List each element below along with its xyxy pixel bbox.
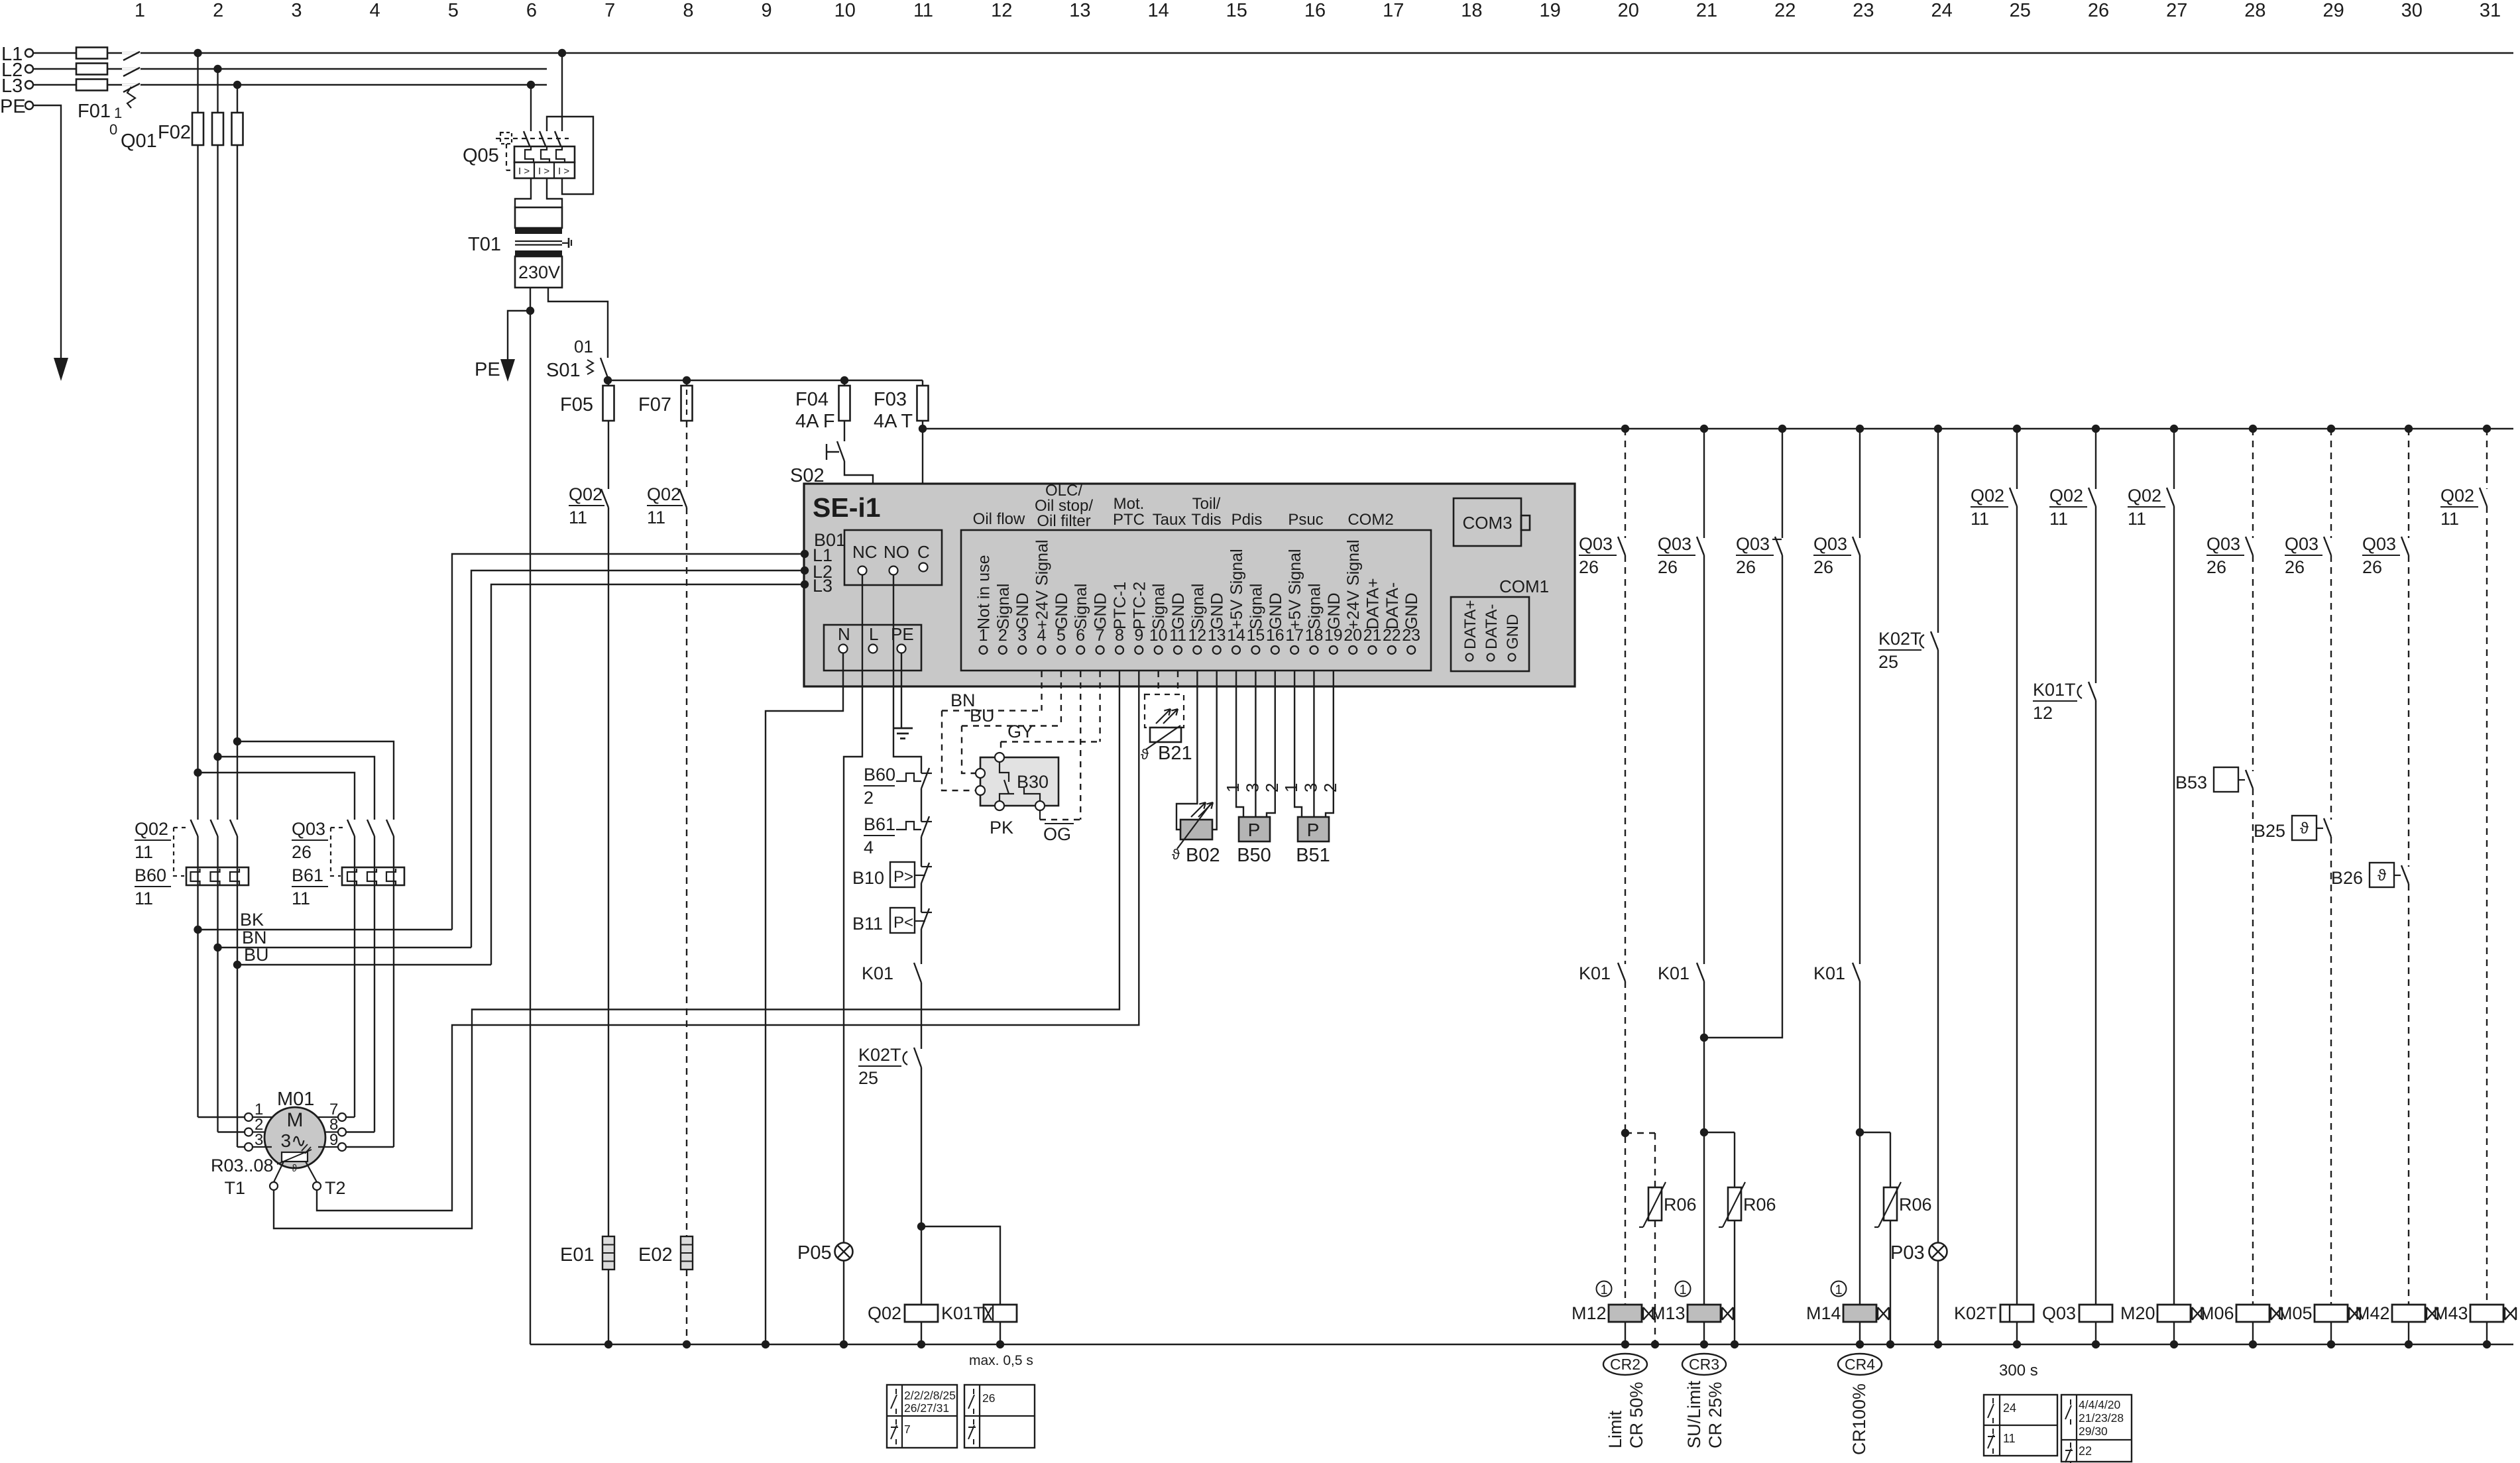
wire P05 to bottom rail bbox=[843, 1260, 844, 1344]
terminal 2 Signal bbox=[994, 584, 1013, 655]
resistor R06 (2) bbox=[1728, 1187, 1741, 1220]
terminal L2 bbox=[1, 60, 33, 81]
node branch-24 on control bus bbox=[1934, 425, 1942, 433]
header Mot. PTC bbox=[1113, 495, 1145, 529]
wire B50 lead 3 (terminal 15) bbox=[1255, 671, 1256, 817]
svg-text:12: 12 bbox=[2033, 703, 2053, 723]
svg-text:GND: GND bbox=[1403, 592, 1421, 629]
svg-text:P03: P03 bbox=[1890, 1242, 1925, 1264]
svg-text:B61: B61 bbox=[292, 865, 323, 885]
node branch-31 on control bus bbox=[2483, 425, 2491, 433]
wire M05 to bottom rail bbox=[2330, 1322, 2332, 1344]
svg-text:P<: P< bbox=[893, 914, 913, 932]
svg-text:F04: F04 bbox=[795, 389, 829, 410]
svg-text:27: 27 bbox=[2166, 0, 2187, 21]
terminal 22 DATA- bbox=[1383, 582, 1402, 654]
wire chain B10-B11 bbox=[921, 883, 922, 912]
svg-text:ϑ: ϑ bbox=[1172, 846, 1180, 863]
wire Q03 tap phase1 bbox=[194, 769, 355, 820]
svg-text:M13: M13 bbox=[1650, 1303, 1686, 1323]
node M14 bottom junction bbox=[1856, 1340, 1864, 1348]
wire Q03 outputs through B61 bbox=[355, 836, 394, 1147]
svg-text:4A F: 4A F bbox=[795, 411, 835, 432]
labels B50 lead numbers bbox=[1223, 783, 1282, 792]
lamp P05 bbox=[797, 1242, 853, 1264]
svg-text:BU: BU bbox=[970, 706, 995, 726]
terminal 1 Not in use bbox=[975, 555, 994, 654]
svg-text:29/30: 29/30 bbox=[2079, 1425, 2108, 1438]
wire F05 branch to E01 bbox=[608, 508, 609, 1236]
terminal 23 GND bbox=[1402, 592, 1421, 654]
svg-text:2/2/2/8/25: 2/2/2/8/25 bbox=[904, 1389, 956, 1402]
svg-text:K01: K01 bbox=[1579, 963, 1611, 983]
wire chain B11-K01 bbox=[921, 929, 922, 964]
svg-text:F05: F05 bbox=[560, 394, 593, 415]
node R06-3 bottom junction bbox=[1886, 1340, 1894, 1348]
svg-text:B30: B30 bbox=[1017, 772, 1049, 792]
terminal 15 Signal bbox=[1246, 584, 1265, 655]
wire M12 to bottom rail bbox=[1625, 1322, 1626, 1344]
coil M42 bbox=[2392, 1305, 2425, 1322]
wire PE branch from transformer bbox=[475, 311, 530, 382]
svg-text:11: 11 bbox=[135, 889, 153, 908]
terminal L1 bbox=[1, 44, 33, 65]
svg-text:Q03: Q03 bbox=[1736, 534, 1770, 554]
svg-text:GY: GY bbox=[1007, 722, 1033, 741]
wire control bus (y=647) bbox=[923, 428, 2513, 429]
svg-text:26: 26 bbox=[2285, 557, 2305, 577]
wire branch-22 to merge bbox=[1704, 555, 1782, 1038]
svg-text:Signal: Signal bbox=[1188, 584, 1207, 630]
wire terminal 6 dashed to OG bbox=[1080, 671, 1081, 820]
module SE-i1 B01 body bbox=[804, 484, 1575, 686]
svg-text:11: 11 bbox=[647, 508, 665, 527]
wire motor lead 8 bbox=[346, 1131, 374, 1132]
switch S01 control on-off bbox=[546, 337, 608, 381]
svg-text:1: 1 bbox=[1835, 1283, 1842, 1297]
svg-text:28: 28 bbox=[2244, 0, 2265, 21]
fuse F01 (3-pole) bbox=[76, 48, 111, 123]
wire OG run to B30 bbox=[1040, 810, 1080, 844]
svg-text:PE: PE bbox=[475, 359, 500, 380]
designator CR3 bbox=[1682, 1354, 1726, 1375]
node K01T bottom junction bbox=[996, 1340, 1004, 1348]
pressure switch B11 P< bbox=[852, 908, 932, 934]
wire R06-2 to bottom rail bbox=[1734, 1220, 1735, 1344]
contact Q02 pole 3 bbox=[230, 820, 237, 836]
node BK tap on phase1 bbox=[194, 926, 201, 934]
svg-text:GND: GND bbox=[1092, 592, 1110, 629]
svg-text:ϑ: ϑ bbox=[292, 1163, 298, 1174]
svg-text:max. 0,5 s: max. 0,5 s bbox=[969, 1353, 1033, 1368]
wire B51 lead 1 (terminal 17) bbox=[1294, 671, 1302, 817]
svg-text:Oil flow: Oil flow bbox=[973, 510, 1025, 528]
wire F05 branch down bbox=[608, 421, 609, 489]
node F07 feed junction bbox=[683, 376, 691, 384]
wire branch-31 upper dashed bbox=[2486, 429, 2488, 489]
svg-text:Signal: Signal bbox=[1306, 584, 1324, 630]
wire terminal 7 dashed (GY rail) bbox=[1099, 671, 1100, 742]
svg-text:K02T: K02T bbox=[858, 1045, 901, 1065]
fuse F03 4A T bbox=[874, 380, 929, 432]
wire branch upper dashed (M06) bbox=[2252, 429, 2254, 538]
wire motor lead 3 bbox=[237, 1146, 245, 1148]
svg-text:CR3: CR3 bbox=[1689, 1356, 1719, 1373]
node control bus origin bbox=[919, 425, 927, 433]
svg-text:B02: B02 bbox=[1186, 845, 1220, 866]
svg-text:Q01: Q01 bbox=[121, 131, 157, 152]
svg-text:4: 4 bbox=[370, 0, 380, 21]
wire GY rail to B30 top bbox=[1001, 722, 1100, 753]
label SU/Limit / CR 25% (rotated) bbox=[1684, 1380, 1725, 1448]
svg-text:7: 7 bbox=[904, 1423, 911, 1436]
node L1-Q05 tap bbox=[558, 49, 566, 57]
contact Q02/11 (branch 26) bbox=[2049, 486, 2096, 529]
terminal 4 +24V Signal bbox=[1033, 539, 1052, 654]
node L1 entry bbox=[801, 550, 809, 558]
node M43 bottom junction bbox=[2483, 1340, 2491, 1348]
svg-text:M12: M12 bbox=[1572, 1303, 1607, 1323]
svg-text:11: 11 bbox=[2003, 1432, 2016, 1445]
wire S02 to SE-i1 L terminal bbox=[844, 461, 873, 645]
wire Q05 pole3 loop to pole2 bbox=[547, 117, 593, 194]
svg-text:ϑ: ϑ bbox=[1141, 746, 1149, 763]
svg-text:9: 9 bbox=[762, 0, 772, 21]
contact Q02/11 (branch 25) bbox=[1971, 486, 2017, 529]
wire NO terminal to safety chain bbox=[893, 574, 921, 773]
terminal 13 GND bbox=[1208, 592, 1227, 654]
svg-text:11: 11 bbox=[2049, 509, 2068, 529]
wire R06-1 branch (dashed) bbox=[1625, 1133, 1655, 1187]
svg-text:2: 2 bbox=[864, 788, 874, 808]
oil level switch B30 bbox=[976, 753, 1059, 838]
node R06-3 branch junction bbox=[1856, 1128, 1864, 1136]
svg-text:24: 24 bbox=[2003, 1401, 2016, 1415]
node branch on control bus (M05) bbox=[2327, 425, 2335, 433]
svg-text:ϑ: ϑ bbox=[2377, 867, 2386, 885]
svg-text:24: 24 bbox=[1931, 0, 1952, 21]
svg-text:3: 3 bbox=[291, 0, 302, 21]
node S01 output junction bbox=[604, 376, 612, 384]
wire BN horizontal run bbox=[218, 928, 472, 948]
svg-text:GND: GND bbox=[1504, 614, 1522, 649]
coil K02T timer bbox=[2000, 1305, 2033, 1322]
wire terminal 11 dashed to B21 bbox=[1177, 671, 1178, 724]
svg-text:1: 1 bbox=[1281, 783, 1301, 792]
node K02T bottom junction bbox=[2013, 1340, 2021, 1348]
wire L3 to Q05 pole1 bbox=[530, 85, 532, 131]
svg-text:5: 5 bbox=[448, 0, 459, 21]
svg-text:Toil/: Toil/ bbox=[1192, 495, 1221, 513]
cross-ref table Q03 bbox=[2061, 1395, 2132, 1463]
svg-text:26: 26 bbox=[1736, 557, 1756, 577]
svg-text:GND: GND bbox=[1267, 592, 1285, 629]
svg-text:1: 1 bbox=[114, 105, 122, 121]
current transformer B60 bbox=[186, 867, 249, 885]
svg-text:1: 1 bbox=[1223, 783, 1243, 792]
svg-text:DATA-: DATA- bbox=[1483, 604, 1501, 649]
svg-text:PK: PK bbox=[990, 818, 1013, 838]
wire R06-3 branch bbox=[1860, 1132, 1890, 1187]
svg-text:GND: GND bbox=[1013, 592, 1032, 629]
svg-text:12: 12 bbox=[991, 0, 1012, 21]
wire branch-25 upper bbox=[2016, 429, 2018, 489]
node E02 bottom junction bbox=[683, 1340, 691, 1348]
wire F04 to S02 bbox=[844, 421, 845, 441]
svg-text:B50: B50 bbox=[1237, 845, 1271, 866]
svg-text:R06: R06 bbox=[1743, 1195, 1776, 1215]
svg-text:CR2: CR2 bbox=[1610, 1356, 1640, 1373]
fuse F05 bbox=[560, 380, 614, 421]
svg-text:26: 26 bbox=[982, 1391, 995, 1405]
contact Q02/11 (branch 31) bbox=[2440, 486, 2487, 529]
wire PE to earth arrow bbox=[33, 105, 61, 358]
svg-text:4: 4 bbox=[864, 838, 874, 857]
svg-text:25: 25 bbox=[2010, 0, 2031, 21]
terminal 20 +24V Signal bbox=[1344, 539, 1363, 654]
wire F07 branch down (dashed) bbox=[686, 421, 687, 489]
wire motor lead 7 bbox=[346, 1116, 355, 1118]
svg-text:SU/Limit: SU/Limit bbox=[1684, 1380, 1704, 1448]
contact Q03 pole 3 bbox=[386, 820, 394, 836]
svg-text:Q02: Q02 bbox=[647, 484, 681, 504]
svg-text:2: 2 bbox=[1320, 783, 1340, 792]
svg-text:M05: M05 bbox=[2277, 1303, 2313, 1323]
svg-text:E02: E02 bbox=[638, 1244, 673, 1266]
terminal 16 GND bbox=[1266, 592, 1285, 654]
svg-text:15: 15 bbox=[1226, 0, 1247, 21]
svg-text:Q03: Q03 bbox=[2042, 1303, 2076, 1323]
wire K02T coil to bottom rail bbox=[2016, 1322, 2018, 1344]
svg-text:K02T: K02T bbox=[1878, 629, 1921, 649]
wire BU rail to B30 bbox=[962, 706, 1061, 773]
contact Q02/11 (F07 branch) bbox=[647, 484, 687, 527]
node merge from branch 22 bbox=[1700, 1034, 1708, 1042]
terminal 5 GND bbox=[1053, 592, 1071, 654]
terminal L3 bbox=[1, 76, 33, 97]
wire L1 to Q05 pole3 bbox=[561, 53, 563, 131]
wire chain K02T to Q02 coil bbox=[921, 1067, 922, 1305]
contact K02T/25 (branch 24) bbox=[1878, 629, 1938, 672]
svg-text:26: 26 bbox=[2088, 0, 2109, 21]
wire branch-23 lower bbox=[1859, 981, 1861, 1305]
wire PTC-2 (terminal 9) to motor sensor bbox=[317, 671, 1139, 1211]
wire branch mid dashed (M05) bbox=[2330, 555, 2332, 820]
wire branch-27 upper bbox=[2173, 429, 2175, 489]
svg-text:11: 11 bbox=[913, 0, 933, 21]
wire branch lower dashed (M06) bbox=[2252, 788, 2254, 1305]
svg-text:2: 2 bbox=[213, 0, 223, 21]
svg-text:7: 7 bbox=[604, 0, 615, 21]
wire branch-21 mid bbox=[1703, 555, 1705, 964]
contact Q03 pole 2 bbox=[367, 820, 374, 836]
svg-text:K01T: K01T bbox=[2033, 680, 2076, 700]
svg-text:PE: PE bbox=[891, 624, 914, 644]
node M06 bottom junction bbox=[2249, 1340, 2257, 1348]
node branch-26 on control bus bbox=[2092, 425, 2100, 433]
svg-text:+5V Signal: +5V Signal bbox=[1286, 549, 1304, 629]
breaker Q05 motor protection bbox=[463, 131, 575, 178]
label Q03/26 (power contacts) bbox=[292, 819, 345, 876]
svg-text:22: 22 bbox=[2079, 1444, 2092, 1458]
svg-text:16: 16 bbox=[1304, 0, 1326, 21]
svg-text:0: 0 bbox=[109, 121, 117, 138]
wire terminal 12 to B02 bbox=[1176, 671, 1197, 830]
svg-text:26: 26 bbox=[2206, 557, 2226, 577]
wire M43 to bottom rail bbox=[2486, 1322, 2488, 1344]
node branch-25 on control bus bbox=[2013, 425, 2021, 433]
svg-text:+24V Signal: +24V Signal bbox=[1344, 539, 1363, 629]
svg-text:L3: L3 bbox=[1, 76, 23, 97]
svg-text:CR100%: CR100% bbox=[1849, 1383, 1869, 1455]
svg-text:1: 1 bbox=[1679, 1283, 1686, 1297]
node P05 bottom junction bbox=[840, 1340, 848, 1348]
svg-text:Q03: Q03 bbox=[2206, 534, 2240, 554]
wire M06 to bottom rail bbox=[2252, 1322, 2254, 1344]
svg-text:B10: B10 bbox=[852, 868, 884, 888]
svg-text:R03..08: R03..08 bbox=[211, 1156, 274, 1175]
svg-text:K01T: K01T bbox=[941, 1303, 984, 1323]
cross-ref table K02T bbox=[1984, 1395, 2057, 1456]
node L3 entry bbox=[801, 580, 809, 588]
svg-text:22: 22 bbox=[1774, 0, 1796, 21]
svg-text:T1: T1 bbox=[224, 1178, 245, 1198]
node K01T branch junction bbox=[917, 1222, 925, 1230]
svg-text:300 s: 300 s bbox=[1999, 1362, 2038, 1380]
contact Q03 pole 1 bbox=[347, 820, 355, 836]
node branch on control bus (M42) bbox=[2405, 425, 2413, 433]
svg-text:1: 1 bbox=[1600, 1283, 1607, 1297]
wire branch-20 dashed bbox=[1625, 429, 1626, 538]
wire chain B60-B61 bbox=[921, 788, 922, 822]
svg-text:Taux: Taux bbox=[1153, 511, 1186, 529]
node branch-27 on control bus bbox=[2170, 425, 2178, 433]
svg-text:25: 25 bbox=[858, 1068, 878, 1088]
svg-text:COM2: COM2 bbox=[1347, 511, 1393, 529]
terminal 11 GND bbox=[1169, 592, 1188, 654]
coil M05 bbox=[2315, 1305, 2348, 1322]
contact Q02 pole 2 bbox=[211, 820, 218, 836]
wire Q05 pole1 to T01 bbox=[515, 178, 531, 207]
svg-text:23: 23 bbox=[1853, 0, 1874, 21]
terminal 12 Signal bbox=[1188, 584, 1207, 655]
wire branch-31 lower dashed bbox=[2486, 506, 2488, 1305]
svg-text:3: 3 bbox=[1300, 783, 1320, 792]
wire PE terminal to ground bbox=[901, 653, 902, 728]
wire branch-20 lower (dashed) bbox=[1625, 981, 1626, 1305]
wire terminal 4 dashed (BN) bbox=[1041, 671, 1042, 711]
wire branch-25 lower bbox=[2016, 506, 2018, 1305]
lamp P03 bbox=[1890, 1242, 1947, 1264]
wire Q03 tap phase3 bbox=[233, 737, 394, 820]
svg-text:11: 11 bbox=[1971, 509, 1989, 529]
terminal 17 +5V Signal bbox=[1285, 549, 1304, 654]
node M05 bottom junction bbox=[2327, 1340, 2335, 1348]
wire bottom rail (N) bbox=[530, 1344, 2513, 1345]
svg-text:SE-i1: SE-i1 bbox=[813, 492, 881, 523]
coil M43 bbox=[2470, 1305, 2503, 1322]
svg-text:M14: M14 bbox=[1806, 1303, 1841, 1323]
fuse F04 4A F bbox=[795, 380, 850, 432]
node BU tap on phase3 bbox=[233, 961, 241, 969]
svg-text:25: 25 bbox=[1878, 652, 1898, 672]
svg-text:F03: F03 bbox=[874, 389, 907, 410]
wire BK horizontal run bbox=[198, 910, 453, 930]
svg-text:26: 26 bbox=[292, 842, 312, 862]
svg-text:6: 6 bbox=[526, 0, 537, 21]
terminal strip box 1-23 bbox=[961, 530, 1431, 671]
sensor B02 discharge gas temperature bbox=[1172, 802, 1220, 866]
wire SE-i1 L3 lead (BU) bbox=[491, 584, 805, 965]
contact Q03/26 (branch 21) bbox=[1658, 534, 1704, 577]
svg-text:Limit: Limit bbox=[1605, 1410, 1625, 1448]
heater E01 crankcase bbox=[560, 1236, 614, 1270]
switch S02 reset button bbox=[790, 441, 844, 486]
svg-text:M42: M42 bbox=[2355, 1303, 2390, 1323]
svg-text:Signal: Signal bbox=[1072, 584, 1090, 630]
svg-text:DATA-: DATA- bbox=[1383, 582, 1402, 629]
wire M42 to bottom rail bbox=[2408, 1322, 2409, 1344]
node M20 bottom junction bbox=[2170, 1340, 2178, 1348]
label Limit / CR 50% (rotated) bbox=[1605, 1382, 1646, 1448]
svg-text:Signal: Signal bbox=[1150, 584, 1169, 630]
wire BU horizontal run bbox=[237, 945, 491, 965]
svg-text:1: 1 bbox=[135, 0, 145, 21]
terminal 7 GND bbox=[1092, 592, 1110, 654]
wire chain B61-B10 bbox=[921, 837, 922, 867]
svg-text:GND: GND bbox=[1208, 592, 1227, 629]
wire M14 to bottom rail bbox=[1859, 1322, 1861, 1344]
labels B51 lead numbers bbox=[1281, 783, 1340, 792]
pressure transmitter B51 bbox=[1296, 817, 1330, 866]
svg-text:R06: R06 bbox=[1664, 1195, 1697, 1215]
node branch-22 on control bus bbox=[1778, 425, 1786, 433]
svg-text:P: P bbox=[1248, 820, 1261, 840]
switch Q01 main disconnect bbox=[109, 52, 157, 152]
node L3-Q05 tap bbox=[527, 81, 535, 89]
node branch-23 on control bus bbox=[1856, 425, 1864, 433]
wire Q02 contact to E02 (dashed) bbox=[686, 508, 687, 1236]
wire R06-2 branch bbox=[1704, 1132, 1735, 1187]
terminal 10 Signal bbox=[1149, 584, 1169, 655]
svg-text:K01: K01 bbox=[1658, 963, 1690, 983]
header OLC/Oil stop/Oil filter bbox=[1035, 482, 1093, 530]
wire NC terminal down bbox=[844, 574, 862, 1242]
node F04 feed junction bbox=[840, 376, 848, 384]
terminal 21 DATA+ bbox=[1363, 578, 1383, 654]
svg-text:Q02: Q02 bbox=[2049, 486, 2083, 506]
svg-text:GND: GND bbox=[1053, 592, 1071, 629]
wire phase 2 drop (L2 to Q02) bbox=[217, 69, 218, 820]
cross-ref table K01T bbox=[964, 1385, 1035, 1448]
terminal 18 Signal bbox=[1305, 584, 1324, 655]
svg-text:OG: OG bbox=[1043, 824, 1071, 844]
node BN tap on phase2 bbox=[213, 944, 221, 951]
contact Q03/26 (M06 branch) bbox=[2206, 534, 2253, 577]
coil M13 bbox=[1688, 1305, 1721, 1322]
svg-text:PTC-1: PTC-1 bbox=[1111, 582, 1129, 629]
svg-text:Q03: Q03 bbox=[292, 819, 325, 839]
contact Q03/26 (M05 branch) bbox=[2285, 534, 2331, 577]
svg-text:26: 26 bbox=[1658, 557, 1678, 577]
node Q02 coil bottom junction bbox=[917, 1340, 925, 1348]
label B61/11 bbox=[292, 865, 328, 908]
contact Q02/11 (branch 27) bbox=[2128, 486, 2174, 529]
svg-text:8: 8 bbox=[683, 0, 693, 21]
wire chain K01-K02T bbox=[921, 983, 922, 1049]
wire terminal 5 dashed (BU) bbox=[1060, 671, 1062, 726]
contact K01 (branch 20) bbox=[1579, 963, 1625, 983]
